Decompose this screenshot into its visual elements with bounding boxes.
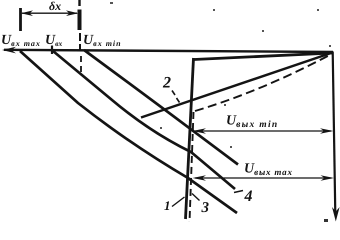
- dashed characteristic diagonal to corner: [195, 54, 333, 112]
- tick under U_bx label: [51, 46, 53, 55]
- load line (U_bx nominal): [53, 51, 235, 189]
- svg-text:1: 1: [164, 198, 171, 213]
- tick mark at U_bx_max: [19, 8, 22, 31]
- svg-text:4: 4: [244, 188, 253, 205]
- steep branch of characteristic (solid vertical): [186, 58, 194, 219]
- load line 1 (U_bx_max): [20, 51, 237, 213]
- pointer dashes from label 2: [172, 91, 175, 96]
- load line (U_bx_min): [84, 50, 238, 165]
- U_byx_min double arrow: [195, 130, 331, 132]
- dashed steep branch (vertical): [190, 112, 194, 222]
- svg-text:2: 2: [162, 75, 171, 92]
- dashed vertical line at U_bx_min: [78, 0, 80, 6]
- right vertical output axis with down arrowhead: [333, 52, 336, 215]
- svg-text:δx: δx: [49, 0, 61, 13]
- svg-text:3: 3: [201, 200, 210, 216]
- delta-x double arrow: [22, 12, 77, 14]
- curve 2: upper characteristic from corner: [141, 53, 333, 118]
- horizontal input axis with left arrowhead: [4, 50, 333, 52]
- flat top of characteristic: [194, 53, 333, 60]
- scan noise specks: [110, 2, 331, 222]
- U_byx_max double arrow: [195, 177, 332, 179]
- label 4 with pointer dash: [234, 191, 243, 193]
- label 3 with pointer: [192, 194, 200, 201]
